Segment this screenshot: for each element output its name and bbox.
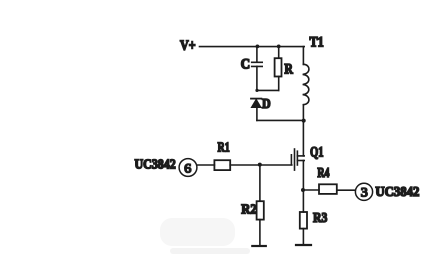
svg-text:C: C (241, 57, 250, 73)
wire R4 to pin3 (337, 189, 355, 191)
watermark smudge (160, 218, 250, 254)
wire V+ rail (200, 46, 305, 48)
wire D to drain node (257, 119, 304, 121)
wire R2 top lead (259, 165, 261, 201)
svg-text:3: 3 (361, 185, 368, 200)
junction dot source/R4 (301, 188, 305, 192)
mosfet Q1 drain stub (297, 155, 304, 157)
junction dot R top (277, 45, 281, 49)
wire R2 bottom lead (259, 220, 261, 245)
resistor R3 body (300, 212, 307, 229)
wire source to R4 (303, 189, 319, 191)
wire R3 bottom lead (302, 229, 304, 244)
pin 6 circle (179, 159, 197, 177)
wire D bottom lead (256, 108, 258, 121)
svg-text:D: D (262, 96, 271, 111)
svg-text:T1: T1 (310, 35, 324, 51)
wire C-R join (257, 89, 279, 91)
capacitor C plates (252, 62, 263, 66)
svg-text:R3: R3 (313, 211, 327, 226)
mosfet Q1 source stub (297, 160, 304, 162)
wire T1 bottom to drain node (302, 105, 304, 156)
svg-text:R1: R1 (218, 141, 230, 156)
wire T1 top lead (302, 47, 304, 65)
junction dot C top (256, 45, 260, 49)
wire Q1 source down (302, 161, 304, 213)
wire pin6 to R1 (197, 164, 214, 166)
mosfet Q1 gate bar (294, 149, 296, 170)
resistor R2 body (257, 201, 264, 219)
diode D anode triangle (251, 99, 261, 107)
node junction dot drain (302, 119, 306, 123)
junction dot CR join (255, 89, 258, 92)
resistor R body (275, 58, 282, 76)
pin 3 circle (355, 183, 372, 200)
mosfet Q1 channel bar (296, 151, 298, 165)
transformer T1 primary winding (303, 64, 309, 105)
svg-text:R: R (284, 61, 293, 77)
svg-text:UC3842: UC3842 (375, 185, 419, 200)
resistor R1 body (214, 160, 230, 170)
resistor R top lead (278, 47, 280, 59)
capacitor C top lead (256, 47, 258, 62)
svg-text:UC3842: UC3842 (135, 157, 176, 172)
capacitor C bottom lead (256, 66, 258, 90)
mosfet Q1 gate lead end (290, 155, 292, 165)
resistor R4 body (319, 184, 337, 194)
svg-text:R2: R2 (241, 203, 256, 218)
ground under R2 (252, 245, 265, 247)
svg-text:Q1: Q1 (310, 145, 324, 161)
svg-text:V+: V+ (180, 38, 196, 54)
ground under R3 (296, 244, 311, 246)
resistor R bottom lead (278, 77, 280, 91)
svg-text:R4: R4 (317, 165, 329, 180)
diode D cathode bar (251, 98, 261, 100)
wire R1 to gate (230, 164, 292, 166)
junction dot R2 tap (258, 163, 262, 167)
svg-text:6: 6 (184, 160, 192, 175)
